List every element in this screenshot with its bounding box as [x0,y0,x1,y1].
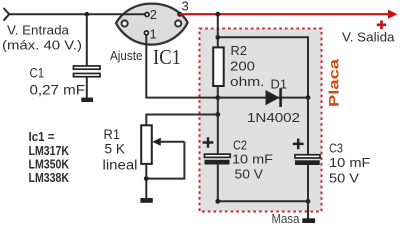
svg-text:V. Entrada: V. Entrada [7,22,70,37]
svg-text:10 mF: 10 mF [329,155,371,170]
svg-text:1: 1 [150,27,157,42]
svg-text:50 V: 50 V [329,171,359,186]
svg-text:IC1: IC1 [153,45,181,69]
diode D1 triangle [266,90,280,105]
C2 polarity plus sign [203,137,214,148]
svg-text:R2: R2 [231,43,248,58]
placa PCB outline (gray board with dashed red border) [200,29,322,212]
wire top inner rail to right side [218,37,308,97]
node junction C3 bottom / Masa [306,199,311,204]
svg-text:50 V: 50 V [235,166,264,181]
wire R2 bottom to adjust node [217,86,219,98]
capacitor C3 plus plate [295,155,320,158]
wire red output rail pin3 to V.Salida [180,13,391,15]
svg-text:10 mF: 10 mF [232,151,273,166]
node junction R1 branch / C2 [215,112,220,117]
svg-text:C3: C3 [329,140,343,155]
output plus sign (red) [377,20,386,29]
IC1 pin 3 terminal [177,12,182,17]
capacitor C2 plus plate [205,154,231,157]
output arrow head [388,10,398,19]
wire right rail to C3 [307,98,309,154]
wire IC1 pin1 (Ajuste) down and right to adjust node [146,35,218,98]
svg-text:0,27 mF: 0,27 mF [30,83,86,98]
svg-text:(máx. 40 V.): (máx. 40 V.) [2,38,82,53]
node junction C2 bottom [215,199,220,204]
node junction input/C1 [85,12,90,17]
svg-text:Masa: Masa [272,212,300,226]
potentiometer R1 body [141,125,152,164]
wire Masa drop [307,201,309,218]
node junction R1 bottom / wiper [144,176,149,181]
R1 wiper arrow head [152,138,161,146]
IC1 pin 2 terminal [145,13,149,17]
resistor R2 [213,47,224,86]
wire adjust node down to R1/C2 branch node [217,98,219,115]
wire C2 node down to C2 [217,115,219,154]
IC1 right mounting hole [175,20,181,26]
input connector chevron [4,8,10,21]
svg-text:R1: R1 [104,127,121,142]
svg-text:200: 200 [230,58,255,73]
wire bottom ground rail [218,200,308,202]
svg-text:2: 2 [150,7,157,22]
svg-text:1N4002: 1N4002 [247,110,300,125]
wire C3 to bottom rail [307,165,309,201]
svg-text:C2: C2 [233,137,247,152]
svg-text:LM338K: LM338K [29,170,70,185]
svg-text:C1: C1 [30,66,45,81]
wire adjust node to D1 and right rail [218,97,308,99]
wire junction down to C1 [86,14,88,65]
C3 polarity plus sign [293,139,304,150]
node junction output rail / R2 branch [215,12,220,17]
ground Masa [302,218,315,223]
node junction adjust / R2 / D1 [215,95,220,100]
svg-text:V. Salida: V. Salida [342,29,395,44]
wire branch left to R1 top [146,115,218,126]
wire input V.Entrada to IC1 pin 2 [9,13,145,15]
capacitor C2 minus plate [205,160,230,165]
svg-text:3: 3 [182,0,189,14]
ground below C1 [81,98,93,102]
svg-text:5 K: 5 K [105,142,126,157]
svg-text:Ajuste: Ajuste [110,48,143,63]
wire wiper loop down and left [146,142,184,179]
wire C1 to ground [86,78,88,98]
R1 wiper arrow line [157,141,184,143]
svg-text:Placa: Placa [327,58,342,107]
capacitor C1 plates [74,66,101,77]
wire R1 bottom to ground [145,164,147,198]
IC1 left mounting hole [122,20,128,26]
diode D1 cathode bar [279,88,282,107]
capacitor C3 minus plate [295,160,320,165]
svg-text:lineal: lineal [103,158,138,173]
wire output junction down into placa [217,14,219,47]
node junction D1 cathode / right rail [306,95,311,100]
IC1 TO-3 package body [116,4,188,45]
ground below R1 [140,198,152,203]
wire C2 to bottom rail [217,165,219,202]
svg-text:ohm.: ohm. [230,74,265,89]
svg-text:D1: D1 [271,77,288,92]
node junction R2 top [215,35,220,40]
IC1 pin 1 terminal [144,31,148,35]
